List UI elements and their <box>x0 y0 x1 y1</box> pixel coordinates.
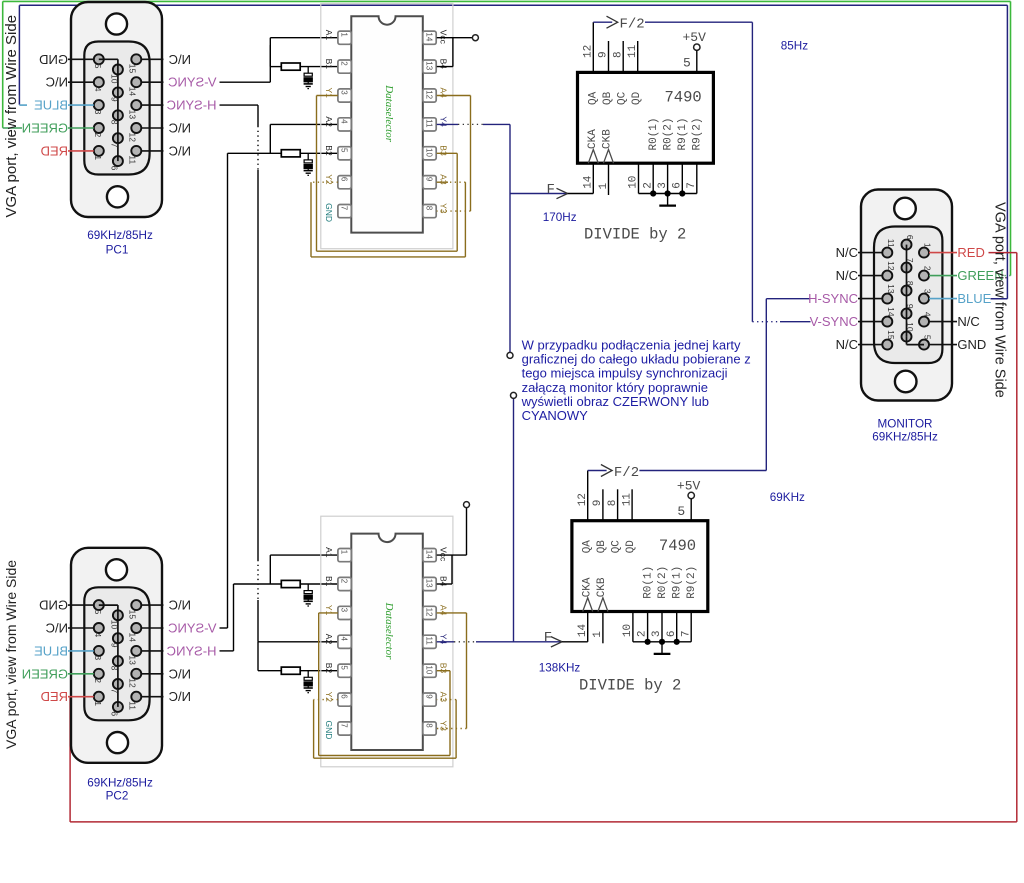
svg-text:B3: B3 <box>438 663 448 674</box>
PC2 pin 11 <box>131 692 141 702</box>
svg-text:RED: RED <box>41 143 68 158</box>
IC DS2 Dataselector pin 9 pad <box>423 693 436 706</box>
svg-text:CKA: CKA <box>587 129 599 149</box>
svg-text:B4: B4 <box>438 59 448 70</box>
PC1 GND stub wire <box>68 58 94 60</box>
svg-text:VGA port, view from Wire Side: VGA port, view from Wire Side <box>3 15 20 218</box>
svg-text:H-SYNC: H-SYNC <box>167 643 217 658</box>
IC 7490-2 body <box>572 521 708 612</box>
PC2 D-sub inset <box>84 587 149 720</box>
IC DS2 Dataselector pin 1 pad <box>338 549 351 562</box>
svg-text:13: 13 <box>425 61 434 70</box>
svg-text:N\C: N\C <box>169 121 191 136</box>
IC DS1 Dataselector pin 11 pad <box>423 118 436 131</box>
wire F arrow to 7490-1 pin14 <box>510 193 568 195</box>
PC1 BLUE wire to net <box>19 104 27 106</box>
svg-text:9: 9 <box>598 51 610 58</box>
IC DS2 Dataselector body <box>351 534 423 750</box>
PC2 GND stub wire <box>68 604 94 606</box>
svg-text:3: 3 <box>340 608 349 613</box>
svg-text:F: F <box>544 630 552 646</box>
MONITOR D-sub inset <box>874 227 942 364</box>
svg-text:F/2: F/2 <box>614 465 639 481</box>
MONITOR pin 15 <box>882 340 892 350</box>
svg-text:R9(2): R9(2) <box>686 566 698 599</box>
wire F/2 top continues <box>645 21 752 23</box>
svg-text:2: 2 <box>340 579 349 584</box>
svg-text:A3: A3 <box>438 174 448 185</box>
wire PC1 H-SYNC vertical to DS2 <box>220 104 259 106</box>
svg-text:8: 8 <box>905 281 915 286</box>
IC DS1 Dataselector pin 3 pad <box>338 89 351 102</box>
svg-text:H-SYNC: H-SYNC <box>808 291 858 306</box>
svg-text:GND: GND <box>39 598 68 613</box>
PC1 N/C stub <box>141 58 163 60</box>
svg-text:A3: A3 <box>438 692 448 703</box>
power terminal +5V 7490-2 <box>688 492 694 498</box>
capacitor at R2 <box>307 153 309 160</box>
svg-text:Y3: Y3 <box>438 721 448 732</box>
svg-text:9: 9 <box>425 694 434 699</box>
PC2 pin 5 <box>94 600 104 610</box>
junction dot <box>665 190 671 196</box>
svg-text:BLUE: BLUE <box>34 98 68 113</box>
IC DS2 Dataselector pin 3 pad <box>338 606 351 619</box>
svg-text:13: 13 <box>425 579 434 588</box>
svg-text:Y1: Y1 <box>324 605 334 616</box>
PC1 V-SYNC stub <box>141 81 163 83</box>
PC1 pin 5 <box>94 54 104 64</box>
svg-text:13: 13 <box>127 655 137 665</box>
svg-text:5: 5 <box>340 665 349 670</box>
svg-text:3: 3 <box>340 90 349 95</box>
svg-text:N\C: N\C <box>169 689 191 704</box>
wire 7490-2 F/2 output to MONITOR H-SYNC <box>588 470 607 472</box>
capacitor at R3 <box>307 584 309 591</box>
PC2 pin 8 <box>113 656 123 666</box>
IC 7490-2 pin 11 stub <box>631 489 633 520</box>
IC 7490-1 pin 2 stub <box>652 163 654 193</box>
svg-text:3: 3 <box>657 182 669 189</box>
ground symbol 7490-2 <box>661 642 663 654</box>
IC 7490-1 pin 9 stub <box>608 41 610 72</box>
wire to sync tap terminal 2 <box>513 398 515 641</box>
IC 7490-2 pin 10 stub <box>632 612 634 642</box>
svg-text:załączą monitor który poprawni: załączą monitor który poprawnie <box>522 380 708 395</box>
MONITOR pin 12 <box>882 271 892 281</box>
svg-text:7: 7 <box>109 689 119 694</box>
svg-text:6: 6 <box>340 694 349 699</box>
svg-text:CKB: CKB <box>601 129 613 149</box>
IC 7490-1 clock wedge CKB <box>604 150 614 164</box>
wire DS1 A2 <box>270 123 338 125</box>
svg-text:F/2: F/2 <box>620 17 645 33</box>
svg-text:5: 5 <box>923 335 933 340</box>
IC 7490-1 pin 7 stub <box>696 163 698 193</box>
svg-text:11: 11 <box>627 44 639 58</box>
PC2 N/C stub wire <box>68 627 94 629</box>
wire DS1 Vcc to terminal <box>437 37 473 39</box>
svg-text:6: 6 <box>109 711 119 716</box>
VGA connector PC1 body <box>71 2 162 217</box>
PC1 N/C stub <box>141 127 163 129</box>
svg-text:4: 4 <box>93 87 103 92</box>
IC DS2 Dataselector pin 7 pad <box>338 722 351 735</box>
svg-text:8: 8 <box>607 500 619 507</box>
wire 7490-1 F/2 output to MONITOR V-SYNC <box>593 21 612 23</box>
terminal circle DS2 Vcc <box>464 502 470 508</box>
7490-1 ground rail wire <box>639 193 697 195</box>
svg-text:7: 7 <box>905 258 915 263</box>
svg-text:V-SYNC: V-SYNC <box>168 75 216 90</box>
IC 7490-2 pin 1 stub <box>602 612 604 644</box>
sync tap terminal 1 <box>507 352 513 358</box>
MONITOR pin 4 <box>919 317 929 327</box>
svg-text:69KHz/85Hz: 69KHz/85Hz <box>87 229 153 242</box>
svg-text:R9(2): R9(2) <box>691 117 703 150</box>
svg-text:12: 12 <box>127 133 137 143</box>
IC 7490-1 pin 14 stub <box>592 163 594 193</box>
IC 7490-1 clock wedge CKA <box>588 150 598 164</box>
svg-text:B2: B2 <box>324 145 334 156</box>
svg-text:10: 10 <box>905 322 915 332</box>
svg-text:6: 6 <box>666 630 678 637</box>
wire DS1 B4 to Vcc <box>437 66 453 68</box>
MONITOR screw hole top <box>894 198 916 220</box>
wire dotted crossing to V-SYNC <box>752 321 780 323</box>
PC1 pin 9 <box>113 87 123 97</box>
svg-text:11: 11 <box>425 637 434 646</box>
svg-text:QB: QB <box>596 540 608 554</box>
MONITOR pin 11 <box>882 248 892 258</box>
IC 7490-1 pin 10 stub <box>638 163 640 193</box>
svg-text:+5V: +5V <box>683 30 707 45</box>
wire DS1 Y4 to 7490 F input <box>437 123 458 125</box>
IC DS1 Dataselector pin 7 pad <box>338 205 351 218</box>
svg-text:B2: B2 <box>324 663 334 674</box>
svg-text:QD: QD <box>631 91 643 105</box>
wire DS1 A1 <box>270 37 338 39</box>
svg-text:12: 12 <box>886 261 896 271</box>
ground symbol at R2 <box>307 169 309 171</box>
MONITOR BLUE stub wire <box>929 298 957 300</box>
wire DS1 B1 row <box>270 66 281 68</box>
svg-text:2: 2 <box>340 61 349 66</box>
IC 7490-1 pin 1 stub <box>608 163 610 195</box>
MONITOR pin 1 <box>919 248 929 258</box>
PC1 BLUE stub wire <box>68 104 94 106</box>
PC1 pin 4 <box>94 77 104 87</box>
IC 7490-1 pin 8 stub <box>622 41 624 72</box>
svg-text:H-SYNC: H-SYNC <box>167 98 217 113</box>
IC DS2 Dataselector selection box <box>321 516 453 767</box>
junction dot <box>674 639 680 645</box>
svg-text:8: 8 <box>109 120 119 125</box>
PC2 N/C stub <box>141 696 163 698</box>
svg-text:8: 8 <box>425 723 434 728</box>
svg-text:N/C: N/C <box>836 268 858 283</box>
PC2 pin 1 <box>94 692 104 702</box>
PC2 pin 10 <box>113 610 123 620</box>
svg-text:9: 9 <box>592 500 604 507</box>
svg-text:11: 11 <box>127 155 137 164</box>
svg-text:N\C: N\C <box>46 75 68 90</box>
svg-text:R9(1): R9(1) <box>677 117 689 150</box>
IC 7490-2 pin 3 stub <box>661 612 663 642</box>
svg-text:BLUE: BLUE <box>957 291 991 306</box>
svg-text:GND: GND <box>39 52 68 67</box>
wire GREEN dotted into MONITOR GREEN <box>1004 275 1011 277</box>
junction dot <box>679 190 685 196</box>
PC2 pin 6 <box>113 702 123 712</box>
svg-text:11: 11 <box>425 119 434 128</box>
PC2 pin 9 <box>113 633 123 643</box>
IC 7490-2 pin 8 stub <box>617 489 619 520</box>
svg-text:GND: GND <box>324 721 334 740</box>
junction dot <box>645 639 651 645</box>
MONITOR N/C stub wire <box>929 321 957 323</box>
capacitor at R1 <box>307 67 309 74</box>
IC 7490-2 pin 9 stub <box>602 489 604 520</box>
svg-text:10: 10 <box>425 665 434 674</box>
svg-text:7: 7 <box>686 182 698 189</box>
PC1 pin 13 <box>131 100 141 110</box>
svg-text:W przypadku podłączenia jednej: W przypadku podłączenia jednej karty <box>522 338 741 353</box>
power terminal +5V 7490-1 <box>694 44 700 50</box>
svg-text:DIVIDE by 2: DIVIDE by 2 <box>584 226 686 244</box>
IC DS1 Dataselector selection box <box>321 4 453 249</box>
PC1 pin 2 <box>94 123 104 133</box>
wire F arrow to 7490-2 pin14 <box>514 641 563 643</box>
svg-text:DIVIDE by 2: DIVIDE by 2 <box>579 677 681 695</box>
MONITOR RED stub wire <box>929 252 957 254</box>
IC 7490-2 pin 6 stub <box>676 612 678 642</box>
svg-text:A1: A1 <box>324 547 334 558</box>
svg-text:N\C: N\C <box>169 143 191 158</box>
svg-text:BLUE: BLUE <box>34 643 68 658</box>
svg-text:B3: B3 <box>438 145 448 156</box>
svg-text:5: 5 <box>683 56 691 71</box>
MONITOR GND stub wire <box>929 344 957 346</box>
wire DS1 Y1 to B3 (loop) <box>317 95 338 97</box>
PC1 internal GND wire <box>99 58 118 60</box>
VGA connector MONITOR body <box>861 190 952 401</box>
svg-text:R0(1): R0(1) <box>642 566 654 599</box>
ground symbol at R4 <box>307 686 309 688</box>
svg-text:8: 8 <box>425 206 434 211</box>
svg-text:12: 12 <box>425 608 434 617</box>
svg-text:3: 3 <box>93 110 103 115</box>
wire DS2 A1 <box>270 554 338 556</box>
svg-text:R0(1): R0(1) <box>648 117 660 150</box>
svg-text:11: 11 <box>886 239 896 248</box>
svg-text:9: 9 <box>109 643 119 648</box>
IC DS2 Dataselector pin 13 pad <box>423 577 436 590</box>
svg-text:GND: GND <box>324 203 334 222</box>
PC1 RED stub wire <box>68 150 94 152</box>
svg-text:11: 11 <box>622 493 634 507</box>
svg-text:7: 7 <box>680 630 692 637</box>
svg-text:69KHz: 69KHz <box>770 491 805 504</box>
ground symbol 7490-1 <box>667 194 669 206</box>
PC2 pin 4 <box>94 623 104 633</box>
svg-text:14: 14 <box>127 87 137 97</box>
svg-text:Y4: Y4 <box>438 634 448 645</box>
svg-text:9: 9 <box>109 97 119 102</box>
IC DS1 Dataselector pin 14 pad <box>423 31 436 44</box>
PC1 pin 10 <box>113 65 123 75</box>
svg-text:3: 3 <box>93 655 103 660</box>
svg-text:7: 7 <box>109 143 119 148</box>
wire DS1 B2 row <box>228 152 282 154</box>
svg-text:2: 2 <box>642 182 654 189</box>
svg-text:QC: QC <box>616 91 628 105</box>
resistor R1 <box>281 63 300 70</box>
PC2 pin 7 <box>113 679 123 689</box>
svg-text:3: 3 <box>651 630 663 637</box>
IC DS2 Dataselector pin 10 pad <box>423 664 436 677</box>
svg-text:A4: A4 <box>438 88 448 99</box>
IC DS1 Dataselector pin 8 pad <box>423 205 436 218</box>
svg-text:V-SYNC: V-SYNC <box>810 314 858 329</box>
svg-text:15: 15 <box>886 330 896 340</box>
svg-text:A4: A4 <box>438 605 448 616</box>
svg-text:N\C: N\C <box>169 52 191 67</box>
svg-text:6: 6 <box>671 182 683 189</box>
svg-text:69KHz/85Hz: 69KHz/85Hz <box>87 777 153 790</box>
MONITOR pin 2 <box>919 271 929 281</box>
IC 7490-1 body <box>578 72 714 163</box>
svg-text:7490: 7490 <box>659 537 696 555</box>
svg-text:N/C: N/C <box>836 245 858 260</box>
svg-text:Y4: Y4 <box>438 116 448 127</box>
PC2 pin 12 <box>131 669 141 679</box>
svg-text:A1: A1 <box>324 30 334 41</box>
IC DS2 Dataselector pin 6 pad <box>338 693 351 706</box>
MONITOR pin 7 <box>902 263 912 273</box>
svg-text:1: 1 <box>592 631 604 638</box>
svg-text:69KHz/85Hz: 69KHz/85Hz <box>872 430 938 443</box>
svg-text:6: 6 <box>905 235 915 240</box>
svg-text:GREEN: GREEN <box>22 121 68 136</box>
svg-text:5: 5 <box>93 64 103 69</box>
svg-text:14: 14 <box>577 623 589 637</box>
IC 7490-1 pin 5 stub <box>696 50 698 72</box>
IC 7490-2 pin 14 stub <box>587 612 589 642</box>
svg-text:1: 1 <box>923 243 933 248</box>
svg-text:N\C: N\C <box>169 666 191 681</box>
junction dot <box>650 190 656 196</box>
svg-text:R0(2): R0(2) <box>657 566 669 599</box>
svg-text:Dataselector: Dataselector <box>383 84 395 143</box>
wire RED net PC2 to MONITOR <box>989 252 1017 254</box>
MONITOR N/C stub <box>858 252 882 254</box>
svg-text:CYANOWY: CYANOWY <box>522 408 589 423</box>
junction dot <box>659 639 665 645</box>
PC2 V-SYNC stub <box>141 627 163 629</box>
svg-text:6: 6 <box>340 177 349 182</box>
svg-text:2: 2 <box>923 266 933 271</box>
VGA connector PC2 body <box>71 548 162 763</box>
svg-text:14: 14 <box>127 633 137 643</box>
IC DS2 Dataselector pin 4 pad <box>338 635 351 648</box>
svg-text:R0(2): R0(2) <box>662 117 674 150</box>
wire to sync tap terminal 1 <box>509 194 511 353</box>
PC1 GREEN wire to net <box>3 127 22 129</box>
svg-text:4: 4 <box>340 119 349 124</box>
svg-text:14: 14 <box>425 32 434 41</box>
svg-text:7: 7 <box>340 723 349 728</box>
svg-text:N\C: N\C <box>169 598 191 613</box>
svg-text:11: 11 <box>127 701 137 710</box>
wire BLUE net PC1 to MONITOR <box>18 5 20 104</box>
IC 7490-1 pin 12 stub <box>592 22 594 72</box>
PC1 N/C stub wire <box>68 81 94 83</box>
svg-text:7: 7 <box>340 206 349 211</box>
PC1 D-sub inset <box>84 42 149 175</box>
IC 7490-2 clock wedge CKB <box>598 598 608 612</box>
wire DS1 A4 to Y3 <box>437 95 471 97</box>
wire GREEN net PC1 to MONITOR (top border) <box>2 1 4 127</box>
svg-text:3: 3 <box>923 289 933 294</box>
svg-text:10: 10 <box>109 74 119 84</box>
svg-text:QA: QA <box>587 91 599 105</box>
PC1 pin 7 <box>113 133 123 143</box>
MONITOR N/C stub <box>858 344 882 346</box>
PC2 pin 3 <box>94 646 104 656</box>
svg-text:5: 5 <box>340 148 349 153</box>
IC 7490-2 clock wedge CKA <box>583 598 593 612</box>
svg-text:14: 14 <box>425 550 434 559</box>
svg-text:Y3: Y3 <box>438 203 448 214</box>
resistor R3 <box>281 580 300 587</box>
svg-text:PC2: PC2 <box>106 790 129 803</box>
IC DS1 Dataselector pin 4 pad <box>338 118 351 131</box>
IC DS1 Dataselector pin 10 pad <box>423 147 436 160</box>
PC1 pin 15 <box>131 54 141 64</box>
IC 7490-1 pin 3 stub <box>667 163 669 193</box>
svg-text:QA: QA <box>582 540 594 554</box>
MONITOR H-SYNC stub <box>858 298 882 300</box>
PC1 pin 14 <box>131 77 141 87</box>
IC DS1 Dataselector pin 6 pad <box>338 176 351 189</box>
PC1 screw hole bottom <box>107 186 128 207</box>
PC1 pin 12 <box>131 123 141 133</box>
PC1 pin 3 <box>94 100 104 110</box>
svg-text:N/C: N/C <box>836 337 858 352</box>
PC2 pin 14 <box>131 623 141 633</box>
svg-text:13: 13 <box>886 284 896 294</box>
svg-text:N/C: N/C <box>957 314 979 329</box>
wire DS2 Vcc to terminal <box>437 554 467 556</box>
PC1 N/C stub <box>141 150 163 152</box>
svg-text:85Hz: 85Hz <box>781 40 808 53</box>
IC DS1 Dataselector pin 13 pad <box>423 60 436 73</box>
IC DS1 Dataselector pin 2 pad <box>338 60 351 73</box>
MONITOR internal GND wire <box>906 245 908 337</box>
svg-text:9: 9 <box>905 304 915 309</box>
svg-text:2: 2 <box>637 630 649 637</box>
IC 7490-2 pin 5 stub <box>690 499 692 521</box>
IC 7490-2 pin 12 stub <box>587 471 589 521</box>
resistor R2 <box>281 150 300 157</box>
svg-text:Dataselector: Dataselector <box>383 602 395 661</box>
IC DS1 Dataselector pin 9 pad <box>423 176 436 189</box>
capacitor at R4 <box>307 671 309 678</box>
ground symbol at R1 <box>307 82 309 84</box>
svg-text:5: 5 <box>677 504 685 519</box>
svg-text:138KHz: 138KHz <box>539 662 581 675</box>
